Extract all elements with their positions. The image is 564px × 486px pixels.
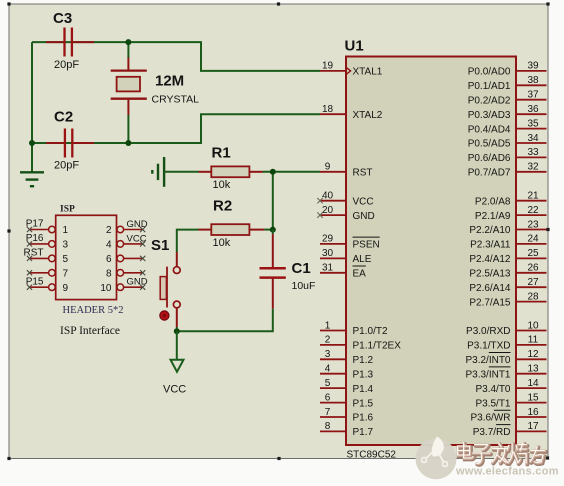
U1 pin 1 P1.0/T2: [320, 320, 388, 337]
U1 pin 25 P2.4/A12: [469, 248, 546, 265]
svg-text:P0.2/AD2: P0.2/AD2: [468, 95, 511, 106]
svg-text:1: 1: [63, 225, 69, 236]
svg-text:P0.7/AD7: P0.7/AD7: [468, 168, 511, 179]
svg-text:12M: 12M: [155, 73, 184, 90]
U1 pin 2 P1.1/T2EX: [320, 335, 401, 352]
svg-text:9: 9: [325, 162, 331, 173]
svg-text:P2.1/A9: P2.1/A9: [475, 211, 511, 222]
ground (below C2): [20, 172, 44, 186]
svg-text:10k: 10k: [213, 179, 231, 191]
svg-text:8: 8: [325, 421, 331, 432]
svg-text:P0.6/AD6: P0.6/AD6: [468, 153, 511, 164]
wire: S1 bottom to rail junction: [176, 327, 178, 331]
watermark: char dian: [458, 443, 475, 460]
U1 pin 10 P3.0/RXD: [466, 320, 546, 337]
ISP pin 1 (left row 1): [26, 219, 69, 237]
svg-text:P1.5: P1.5: [353, 398, 374, 409]
svg-text:20pF: 20pF: [54, 160, 79, 172]
svg-text:P1.0/T2: P1.0/T2: [353, 326, 388, 337]
svg-text:17: 17: [527, 421, 539, 432]
svg-text:21: 21: [527, 191, 539, 202]
svg-text:www.elecfans.com: www.elecfans.com: [455, 466, 559, 478]
svg-text:36: 36: [527, 104, 539, 115]
crystal X1 12M: [111, 42, 199, 143]
watermark: www.elecfans.com: [455, 466, 560, 479]
svg-text:5: 5: [325, 378, 331, 389]
svg-text:35: 35: [527, 118, 539, 129]
svg-text:P1.6: P1.6: [353, 413, 374, 424]
wire: ground to R1: [164, 171, 198, 173]
watermark: char fa: [492, 443, 509, 464]
svg-text:38: 38: [527, 75, 539, 86]
wire: R2 right to junction: [264, 229, 272, 231]
svg-text:U1: U1: [345, 38, 364, 55]
ISP pin 4 (right row 2): [106, 233, 147, 250]
svg-text:VCC: VCC: [353, 196, 374, 207]
svg-text:25: 25: [527, 248, 539, 259]
svg-text:22: 22: [527, 205, 539, 216]
power terminal VCC (down arrow): [163, 331, 186, 395]
U1 pin 28 P2.7/A15: [469, 291, 546, 308]
svg-text:15: 15: [527, 392, 539, 403]
U1 pin 9 RST: [320, 162, 373, 179]
svg-text:10: 10: [100, 283, 112, 294]
svg-text:RST: RST: [353, 168, 373, 179]
U1 pin 7 P1.6: [320, 407, 374, 424]
wire: bottom rail to C1 bottom: [177, 309, 273, 332]
svg-text:P2.3/A11: P2.3/A11: [470, 240, 511, 251]
svg-text:EA: EA: [353, 269, 367, 280]
svg-text:14: 14: [527, 378, 539, 389]
U1 pin 5 P1.4: [320, 378, 374, 395]
svg-text:P3.1/TXD: P3.1/TXD: [467, 341, 510, 352]
U1 pin 31 EA: [320, 263, 366, 280]
svg-text:GND: GND: [127, 219, 148, 230]
svg-text:P0.0/AD0: P0.0/AD0: [468, 67, 511, 78]
label HEADER 5*2: [63, 305, 124, 316]
U1 pin 23 P2.2/A10: [469, 219, 546, 236]
svg-text:STC89C52: STC89C52: [347, 450, 397, 461]
ISP pin 10 (right row 5): [100, 277, 147, 294]
watermark: char you: [530, 446, 546, 464]
svg-text:P15: P15: [26, 276, 44, 287]
U1 pin 15 P3.5/T1: [475, 392, 546, 409]
svg-text:6: 6: [325, 392, 331, 403]
U1 pin 13 P3.3/INT1: [465, 364, 546, 381]
U1 pin 14 P3.4/T0: [475, 378, 546, 395]
svg-text:P1.4: P1.4: [353, 384, 374, 395]
U1 pin 20 GND: [317, 205, 374, 222]
svg-text:P3.0/RXD: P3.0/RXD: [466, 326, 510, 337]
svg-text:6: 6: [106, 254, 112, 265]
svg-text:10k: 10k: [213, 237, 231, 249]
wire: crystal-bottom junction to XTAL2 (step): [128, 114, 320, 143]
svg-text:26: 26: [527, 263, 539, 274]
U1 pin 27 P2.6/A14: [469, 277, 546, 294]
svg-text:C1: C1: [292, 260, 311, 277]
U1 pin 21 P2.0/A8: [475, 191, 547, 208]
U1 pin 29 PSEN: [320, 234, 380, 251]
svg-text:18: 18: [322, 104, 334, 115]
svg-text:P3.4/T0: P3.4/T0: [475, 384, 510, 395]
svg-text:11: 11: [528, 335, 539, 346]
U1 pin 24 P2.3/A11: [470, 234, 546, 251]
U1 pin 35 P0.4/AD4: [468, 118, 547, 135]
svg-text:37: 37: [527, 90, 539, 101]
svg-text:28: 28: [527, 291, 539, 302]
resistor R2 10k: [199, 198, 265, 249]
svg-text:P2.0/A8: P2.0/A8: [475, 196, 511, 207]
U1 pin 38 P0.1/AD1: [468, 75, 547, 92]
watermark: char zi: [473, 445, 491, 465]
U1 pin 4 P1.3: [320, 364, 374, 381]
svg-text:20: 20: [322, 205, 334, 216]
svg-text:24: 24: [527, 234, 539, 245]
node: RST junction: [270, 169, 276, 175]
svg-text:7: 7: [325, 407, 331, 418]
svg-text:P0.1/AD1: P0.1/AD1: [468, 81, 511, 92]
svg-text:4: 4: [106, 240, 112, 251]
U1 pin 39 P0.0/AD0: [468, 61, 547, 78]
svg-text:3: 3: [63, 240, 69, 251]
wire: R1 to RST pin: [263, 171, 321, 173]
svg-text:P3.3/INT1: P3.3/INT1: [465, 369, 510, 380]
ISP pin 2 (right row 1): [106, 219, 148, 236]
svg-text:40: 40: [322, 191, 334, 202]
svg-text:31: 31: [322, 263, 334, 274]
node: R2/C1 junction: [270, 227, 276, 233]
svg-text:S1: S1: [151, 237, 169, 254]
U1 pin 8 P1.7: [320, 421, 374, 438]
svg-text:P0.4/AD4: P0.4/AD4: [468, 124, 511, 135]
svg-text:C3: C3: [53, 10, 72, 27]
U1 pin 30 ALE: [320, 248, 372, 265]
U1 pin 36 P0.3/AD3: [468, 104, 547, 121]
svg-text:P2.5/A13: P2.5/A13: [469, 269, 511, 280]
U1 pin 6 P1.5: [320, 392, 374, 409]
wire: left vertical C3/C2/ground: [31, 42, 33, 172]
svg-text:ALE: ALE: [353, 254, 372, 265]
ISP pin 9 (left row 5): [26, 276, 69, 294]
svg-text:19: 19: [322, 61, 334, 72]
svg-text:R1: R1: [212, 145, 231, 162]
svg-text:P1.7: P1.7: [353, 427, 374, 438]
capacitor C2: [46, 109, 94, 172]
svg-text:XTAL1: XTAL1: [353, 67, 383, 78]
svg-text:GND: GND: [127, 277, 148, 288]
svg-text:P2.6/A14: P2.6/A14: [469, 283, 511, 294]
svg-text:RST: RST: [24, 248, 44, 259]
svg-text:P2.4/A12: P2.4/A12: [469, 254, 511, 265]
capacitor C3: [46, 10, 94, 71]
U1 pin 40 VCC: [317, 191, 373, 208]
U1 pin 3 P1.2: [320, 349, 374, 366]
ISP pin 8 (right row 4): [106, 269, 145, 280]
svg-text:2: 2: [106, 225, 112, 236]
U1 pin 37 P0.2/AD2: [468, 90, 547, 107]
svg-text:P3.2/INT0: P3.2/INT0: [465, 355, 510, 366]
svg-text:P1.2: P1.2: [353, 355, 374, 366]
ISP pin 3 (left row 2): [26, 233, 69, 251]
wire: R2 left to S1 top: [177, 230, 199, 252]
svg-text:1: 1: [325, 320, 331, 331]
IC U1 STC89C52 body: [345, 38, 517, 461]
svg-text:P2.2/A10: P2.2/A10: [469, 225, 511, 236]
connector J1 ISP header body: [56, 205, 117, 300]
U1 pin 32 P0.7/AD7: [468, 162, 547, 179]
svg-text:XTAL2: XTAL2: [353, 110, 383, 121]
svg-text:5: 5: [63, 254, 69, 265]
svg-text:P0.3/AD3: P0.3/AD3: [468, 110, 511, 121]
U1 pin 34 P0.5/AD5: [468, 133, 547, 150]
ground (left of R1, rotated): [152, 157, 164, 187]
watermark: elecfans logo circle: [416, 437, 457, 480]
svg-text:20pF: 20pF: [54, 59, 79, 71]
svg-text:PSEN: PSEN: [353, 240, 380, 251]
svg-text:32: 32: [527, 162, 539, 173]
svg-text:33: 33: [527, 147, 539, 158]
svg-text:8: 8: [106, 269, 112, 280]
wire: RST junction down to R2 junction: [272, 172, 274, 230]
wire: C3 to crystal-top junction: [32, 41, 128, 43]
node: S1/VCC junction: [174, 328, 180, 334]
capacitor C1 10uF: [260, 230, 316, 309]
U1 pin 17 P3.7/RD: [473, 421, 547, 438]
svg-text:P1.3: P1.3: [353, 369, 374, 380]
svg-text:13: 13: [527, 364, 539, 375]
watermark: char shao: [507, 443, 527, 465]
svg-text:GND: GND: [353, 211, 375, 222]
U1 pin 26 P2.5/A13: [469, 263, 546, 280]
label ISP Interface: [60, 325, 120, 337]
ISP pin 5 (left row 3): [24, 248, 69, 266]
svg-text:2: 2: [325, 335, 331, 346]
U1 pin 22 P2.1/A9: [475, 205, 547, 222]
svg-text:7: 7: [63, 269, 69, 280]
wire: C2 to crystal-bottom junction: [32, 142, 128, 144]
svg-text:P2.7/A15: P2.7/A15: [469, 297, 511, 308]
svg-text:12: 12: [527, 349, 539, 360]
node: crystal bottom junction: [125, 140, 131, 146]
svg-text:P3.7/RD: P3.7/RD: [473, 427, 511, 438]
svg-text:CRYSTAL: CRYSTAL: [152, 93, 200, 105]
svg-text:P1.1/T2EX: P1.1/T2EX: [353, 341, 402, 352]
svg-text:VCC: VCC: [127, 233, 147, 244]
node: crystal top junction: [125, 39, 131, 45]
svg-text:4: 4: [325, 364, 331, 375]
svg-text:23: 23: [527, 219, 539, 230]
wire: crystal-top junction to XTAL1 (step): [128, 42, 320, 71]
svg-text:P16: P16: [26, 233, 44, 244]
svg-text:P0.5/AD5: P0.5/AD5: [468, 139, 511, 150]
node: C2 left junction: [29, 140, 35, 146]
svg-text:P3.6/WR: P3.6/WR: [470, 413, 510, 424]
svg-text:VCC: VCC: [163, 383, 186, 395]
svg-text:ISP Interface: ISP Interface: [60, 325, 120, 337]
svg-text:3: 3: [325, 349, 331, 360]
svg-text:HEADER 5*2: HEADER 5*2: [63, 305, 124, 316]
svg-text:16: 16: [527, 407, 539, 418]
U1 pin 19 XTAL1: [320, 61, 383, 78]
pushbutton S1: [151, 237, 180, 327]
svg-text:10uF: 10uF: [292, 280, 316, 292]
svg-text:30: 30: [322, 248, 334, 259]
U1 pin 16 P3.6/WR: [470, 407, 546, 424]
svg-text:29: 29: [322, 234, 334, 245]
resistor R1 10k: [199, 145, 263, 191]
ISP pin 6 (right row 3): [106, 254, 145, 265]
svg-text:10: 10: [527, 320, 539, 331]
U1 pin 18 XTAL2: [320, 104, 383, 121]
svg-text:ISP: ISP: [60, 205, 75, 215]
svg-text:P3.5/T1: P3.5/T1: [475, 398, 510, 409]
svg-text:9: 9: [63, 283, 69, 294]
ISP pin 7 (left row 4): [27, 269, 69, 280]
svg-text:R2: R2: [213, 198, 232, 215]
svg-text:27: 27: [527, 277, 539, 288]
U1 pin 11 P3.1/TXD: [467, 335, 546, 352]
svg-text:39: 39: [527, 61, 539, 72]
U1 pin 12 P3.2/INT0: [465, 349, 546, 366]
svg-text:P17: P17: [26, 219, 44, 230]
svg-text:C2: C2: [54, 109, 73, 126]
svg-text:34: 34: [527, 133, 539, 144]
U1 pin 33 P0.6/AD6: [468, 147, 547, 164]
